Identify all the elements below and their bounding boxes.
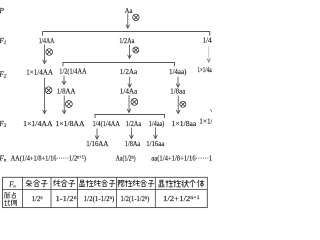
svg-text:1/16aa: 1/16aa — [146, 140, 165, 148]
svg-text:1×1/4AA: 1×1/4AA — [23, 120, 53, 128]
svg-text:1/8aa: 1/8aa — [170, 87, 186, 95]
svg-text:1/2Aa: 1/2Aa — [120, 68, 138, 76]
svg-text:1/2Aa: 1/2Aa — [119, 37, 135, 45]
svg-text:1×1/8AA: 1×1/8AA — [56, 120, 86, 128]
svg-text:P: P — [0, 6, 4, 15]
svg-text:1/4(1/4AA: 1/4(1/4AA — [93, 120, 121, 128]
svg-text:1×1/4aa: 1×1/4aa — [198, 66, 213, 74]
svg-text:1/8Aa: 1/8Aa — [125, 140, 141, 148]
svg-text:Aa: Aa — [125, 7, 133, 15]
svg-text:1/2Aa: 1/2Aa — [126, 120, 142, 128]
svg-text:1/8AA: 1/8AA — [57, 87, 76, 95]
svg-text:aa(1/4+1/8+1/16······1/2n+1): aa(1/4+1/8+1/16······1/2n+1) — [151, 155, 212, 163]
svg-text:1/4aa): 1/4aa) — [149, 120, 165, 128]
svg-text:1/2(1/4AA: 1/2(1/4AA — [59, 68, 87, 76]
svg-text:1×1/4AA: 1×1/4AA — [26, 69, 53, 77]
svg-text:1×1/8aa: 1×1/8aa — [172, 120, 197, 128]
svg-text:1/4aa): 1/4aa) — [169, 68, 187, 76]
svg-text:AA(1/4+1/8+1/16······1/2n+1): AA(1/4+1/8+1/16······1/2n+1) — [11, 155, 86, 163]
svg-text:1/16AA: 1/16AA — [86, 140, 109, 148]
svg-text:1×1/4aa: 1×1/4aa — [199, 117, 212, 125]
svg-text:1/4AA: 1/4AA — [39, 37, 55, 45]
svg-text:1/4Aa: 1/4Aa — [120, 87, 138, 95]
svg-text:Fn: Fn — [8, 182, 16, 189]
svg-text:1/4aa: 1/4aa — [203, 36, 212, 44]
